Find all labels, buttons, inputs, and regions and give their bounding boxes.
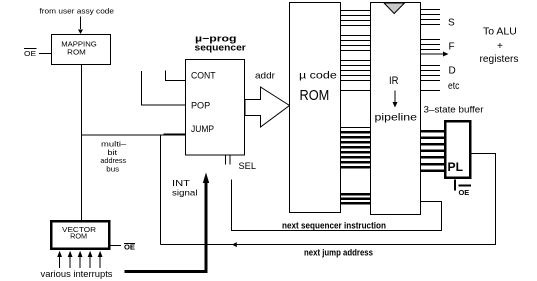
svg-text:S: S — [448, 18, 455, 29]
wire: POP input stub — [142, 71, 186, 105]
svg-text:SEL: SEL — [239, 161, 257, 171]
svg-text:pipeline: pipeline — [375, 112, 418, 124]
wire: vector ROM OE stub — [110, 245, 121, 247]
wire: OE stub to mapping ROM — [39, 53, 52, 55]
svg-text:sequencer: sequencer — [195, 43, 247, 54]
svg-text:3–state buffer: 3–state buffer — [424, 105, 484, 115]
bus hash lines between ROM and IR (thick group 2) — [341, 193, 371, 205]
svg-text:ROM: ROM — [67, 48, 86, 57]
bus hash lines between ROM and IR (thick group 1) — [341, 131, 371, 169]
IR output stub lines (F group) — [421, 40, 441, 50]
overline of OE (PL) — [459, 185, 472, 187]
overline of OE (vector) — [124, 243, 135, 245]
svg-text:addr: addr — [255, 70, 275, 80]
svg-text:F: F — [449, 42, 455, 53]
SEL input ticks — [226, 156, 231, 165]
wire: IR to pipeline internal arrow — [394, 91, 396, 104]
wire: thick bus segment at JUMP input — [164, 134, 186, 136]
u-code ROM U3 — [290, 3, 341, 213]
svg-text:OE: OE — [459, 188, 470, 197]
mapping ROM U1 — [52, 35, 111, 65]
wire: PL output to next jump address — [161, 154, 496, 245]
vector ROM U6 — [51, 221, 109, 249]
svg-text:OE: OE — [24, 49, 36, 58]
interrupt input arrows into vector ROM — [57, 251, 102, 268]
svg-text:CONT: CONT — [191, 70, 216, 80]
u-prog sequencer U2 — [186, 60, 245, 156]
svg-text:INT: INT — [172, 178, 190, 188]
bus hash lines into PL (thick) — [421, 130, 445, 172]
svg-text:ROM: ROM — [70, 232, 87, 241]
svg-text:µ code: µ code — [299, 70, 337, 81]
wire: INT signal thick path — [125, 180, 207, 272]
label: multi-bit address bus — [100, 140, 127, 174]
arrowhead down into MAPPING ROM — [78, 30, 83, 35]
label: To ALU + registers — [480, 27, 519, 66]
svg-text:+: + — [497, 41, 503, 52]
svg-text:PL: PL — [448, 160, 464, 174]
label: INT signal — [172, 178, 198, 198]
wire: PL OE stub — [454, 180, 456, 191]
svg-text:etc: etc — [448, 81, 459, 92]
svg-text:ROM: ROM — [300, 87, 330, 104]
wire: mapping ROM down to vector ROM — [81, 65, 83, 221]
IR output stub lines (D group) — [421, 66, 441, 81]
svg-text:POP: POP — [191, 100, 210, 110]
IR pipeline register U4 — [371, 3, 421, 215]
svg-text:bus: bus — [106, 165, 119, 174]
bus hash lines between ROM and IR (thin) — [341, 11, 371, 128]
svg-text:registers: registers — [480, 54, 519, 65]
arrow marker on next jump address wire — [232, 242, 237, 247]
wire: next sequencer instruction feedback — [232, 180, 442, 231]
svg-text:signal: signal — [172, 188, 198, 198]
wire: user code input arrow into MAPPING ROM — [80, 17, 82, 30]
wire: multi-bit address bus into JUMP — [82, 134, 186, 136]
IR output stub lines (S group) — [421, 10, 441, 25]
overline of OE (mapping) — [24, 48, 37, 50]
IR output stub line (etc) — [421, 90, 441, 92]
wire: CONT input stub — [166, 71, 186, 81]
svg-text:JUMP: JUMP — [191, 124, 214, 134]
svg-text:D: D — [449, 66, 456, 77]
svg-text:various interrupts: various interrupts — [41, 269, 114, 279]
svg-text:To ALU: To ALU — [483, 27, 517, 38]
svg-text:OE: OE — [124, 243, 135, 252]
arrowhead of INT signal — [203, 173, 209, 184]
clock triangle on IR pipeline — [384, 3, 405, 14]
addr bus block arrow — [245, 87, 290, 127]
PL register U5 — [445, 121, 470, 178]
wire: vertical from JUMP bus down to next jump address — [160, 135, 162, 245]
svg-text:IR: IR — [389, 75, 399, 87]
arrowhead of IR internal arrow — [393, 102, 398, 108]
svg-text:next sequencer instruction: next sequencer instruction — [282, 221, 386, 231]
svg-text:from user assy code: from user assy code — [40, 7, 115, 16]
arrowhead of output line — [443, 52, 449, 57]
wire: arrowed output line below F — [421, 53, 444, 55]
svg-text:next jump address: next jump address — [304, 248, 373, 258]
